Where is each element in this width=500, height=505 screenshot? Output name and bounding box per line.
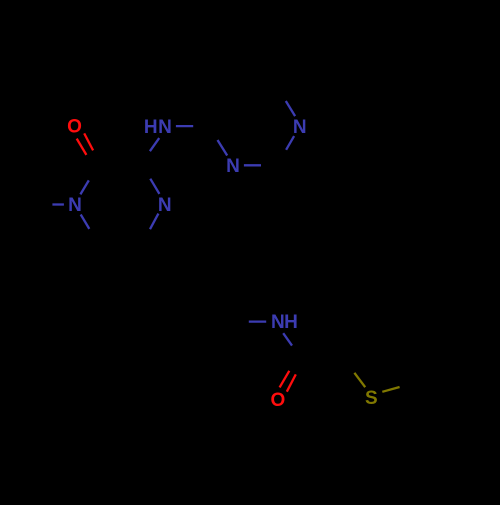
bond N1-CH3 methyl half xyxy=(52,203,64,205)
bond C16=O17 double bond outer red line xyxy=(287,374,296,391)
svg-text:N: N xyxy=(271,312,285,333)
svg-text:N: N xyxy=(158,195,172,216)
bond N1-C6 lower half xyxy=(81,215,90,229)
bond C16=O17 double bond inner red line xyxy=(280,371,290,388)
svg-text:H: H xyxy=(284,312,298,333)
bond N4-C5 lower half xyxy=(150,214,158,230)
bond C2=O1 double bond inner red line xyxy=(77,139,87,155)
svg-text:O: O xyxy=(67,117,82,138)
bond C2=O1 double bond outer red line xyxy=(84,133,93,150)
bond S19-C20 right half xyxy=(382,387,399,392)
bond C14-N15(NH) left half xyxy=(249,320,266,322)
bond N1-C2 upper half xyxy=(80,180,88,194)
bond N11-C13 lower half xyxy=(286,136,294,150)
svg-text:N: N xyxy=(226,156,240,177)
bond C12-N11 upper half xyxy=(286,101,295,116)
bond N9-C10 right half xyxy=(244,164,261,166)
bond N7(HN)-C3 lower-left half xyxy=(150,138,159,151)
svg-text:N: N xyxy=(293,117,307,138)
bond C3-N4 upper half xyxy=(150,179,159,194)
svg-text:O: O xyxy=(271,390,286,411)
svg-text:S: S xyxy=(365,388,378,409)
svg-text:N: N xyxy=(158,117,172,138)
bond N15-C16 carbonyl half xyxy=(283,333,292,345)
svg-text:N: N xyxy=(68,195,82,216)
bond C8-N9 half toward ring N xyxy=(218,140,228,156)
svg-text:H: H xyxy=(144,117,158,138)
bond N7(HN)-C8 right half xyxy=(176,125,193,127)
bond C18-S19 upper-left half xyxy=(354,373,365,387)
